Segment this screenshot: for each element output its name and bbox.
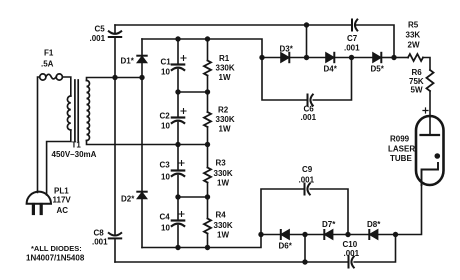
note: all diodes bbox=[26, 244, 85, 263]
wire: secondary bottom to ladder mid rail bbox=[87, 141, 208, 145]
label C10 value bbox=[343, 240, 360, 258]
label C8 value bbox=[92, 229, 108, 247]
label R099 LASER TUBE bbox=[388, 135, 415, 164]
svg-text:R6: R6 bbox=[412, 68, 423, 77]
wire: fuse to transformer primary top bbox=[62, 77, 70, 96]
svg-text:5W: 5W bbox=[411, 86, 423, 95]
svg-text:D1*: D1* bbox=[121, 57, 135, 66]
label D3 bbox=[280, 45, 294, 54]
svg-text:C8: C8 bbox=[94, 229, 105, 238]
wire: ladder top rail bbox=[142, 39, 262, 58]
svg-text:1W: 1W bbox=[219, 73, 231, 82]
svg-text:10: 10 bbox=[161, 68, 170, 77]
transformer T1 core bbox=[75, 80, 78, 141]
wire: lower diode row bbox=[261, 234, 396, 236]
label C6 value bbox=[301, 105, 317, 123]
svg-text:AC: AC bbox=[57, 206, 69, 215]
svg-text:330K: 330K bbox=[214, 169, 233, 178]
svg-text:.001: .001 bbox=[90, 34, 106, 43]
svg-text:.001: .001 bbox=[299, 176, 315, 185]
label D6 bbox=[279, 242, 293, 251]
capacitor C10 bbox=[349, 257, 354, 268]
wire: capacitor string C1-C4 bbox=[177, 39, 179, 248]
fuse F1 bbox=[40, 74, 63, 80]
svg-text:R4: R4 bbox=[216, 211, 227, 220]
label D1 bbox=[121, 57, 135, 66]
svg-text:2W: 2W bbox=[408, 41, 420, 50]
svg-text:R3: R3 bbox=[216, 159, 227, 168]
diode D7 bbox=[324, 230, 332, 239]
resistor R2 bbox=[204, 112, 211, 127]
svg-text:10: 10 bbox=[161, 122, 170, 131]
svg-text:.001: .001 bbox=[344, 44, 360, 53]
label D2 bbox=[121, 195, 135, 204]
svg-text:33K: 33K bbox=[406, 31, 421, 40]
label T1 bbox=[52, 141, 97, 160]
capacitor C4 bbox=[172, 212, 184, 227]
label R3 bbox=[214, 159, 233, 188]
svg-text:.001: .001 bbox=[301, 113, 317, 122]
wire: ladder bottom rail bbox=[142, 235, 261, 248]
resistor R5 bbox=[394, 54, 430, 70]
wire: C8 branch down to bottom rail bbox=[114, 78, 116, 263]
svg-text:10: 10 bbox=[161, 224, 170, 233]
label C4 bbox=[160, 213, 171, 233]
capacitor C8 bbox=[109, 233, 121, 238]
wire: bottom rail bbox=[115, 235, 396, 263]
label F1 value bbox=[41, 49, 54, 69]
label R6 bbox=[409, 68, 424, 95]
capacitor C3 bbox=[172, 161, 184, 177]
capacitor C6 bbox=[308, 95, 313, 106]
svg-text:D2*: D2* bbox=[121, 195, 135, 204]
laser tube V1 polarity plus bbox=[423, 108, 428, 113]
svg-text:D7*: D7* bbox=[322, 220, 336, 229]
resistor R6 bbox=[427, 70, 434, 135]
svg-text:D5*: D5* bbox=[371, 65, 385, 74]
label D8 bbox=[367, 220, 381, 229]
label C5 value bbox=[90, 25, 106, 44]
svg-text:330K: 330K bbox=[216, 115, 235, 124]
label D4 bbox=[324, 65, 338, 74]
svg-text:C1: C1 bbox=[161, 58, 172, 67]
svg-text:F1: F1 bbox=[44, 49, 54, 58]
resistor R1 bbox=[204, 61, 211, 76]
svg-text:*ALL DIODES:: *ALL DIODES: bbox=[31, 244, 82, 253]
wire: C6 branch bbox=[262, 58, 352, 101]
resistor R3 bbox=[204, 168, 211, 183]
wire: plug left lead up to fuse bbox=[38, 77, 40, 193]
diode D2 bbox=[137, 192, 146, 199]
svg-text:R5: R5 bbox=[408, 21, 419, 30]
diode D5 bbox=[373, 53, 381, 62]
plug PL1 bbox=[27, 192, 51, 214]
svg-text:.001: .001 bbox=[344, 249, 360, 258]
label R4 bbox=[214, 211, 233, 240]
label C2 bbox=[160, 112, 171, 131]
laser tube cathode bbox=[422, 163, 439, 185]
capacitor C9 bbox=[305, 184, 310, 195]
transformer T1 secondary winding bbox=[87, 81, 90, 141]
wire: ladder rail 2 bbox=[178, 91, 208, 93]
laser tube bore dot bbox=[435, 153, 441, 159]
svg-text:D4*: D4* bbox=[324, 65, 338, 74]
svg-text:C10: C10 bbox=[343, 240, 358, 249]
svg-text:1W: 1W bbox=[217, 179, 229, 188]
svg-text:.5A: .5A bbox=[41, 60, 54, 69]
wire: C5 riser from top rail down to transformer node bbox=[114, 25, 116, 78]
wire: tube cathode down to lower diode row bbox=[396, 185, 422, 235]
wire: top rail from C5 to C7 corner bbox=[115, 25, 394, 58]
label R1 bbox=[216, 54, 235, 82]
svg-text:D3*: D3* bbox=[280, 45, 294, 54]
capacitor C7 bbox=[352, 20, 357, 31]
label D5 bbox=[371, 65, 385, 74]
wire: resistor string R1-R4 bbox=[207, 39, 209, 248]
svg-text:10: 10 bbox=[161, 173, 170, 182]
svg-text:C7: C7 bbox=[347, 34, 358, 43]
diode D1 bbox=[137, 56, 146, 63]
diode D4 bbox=[326, 53, 334, 62]
laser tube anode bar bbox=[421, 134, 440, 136]
svg-text:C9: C9 bbox=[302, 165, 313, 174]
label C7 value bbox=[344, 34, 360, 53]
wire: riser from top rail to D3/D4 junction bbox=[306, 25, 308, 58]
svg-text:C2: C2 bbox=[160, 112, 171, 121]
diode D3 bbox=[281, 53, 289, 62]
svg-text:C3: C3 bbox=[160, 161, 171, 170]
wire: ladder rail 4 bbox=[178, 196, 208, 198]
wire: secondary top to diode string node bbox=[87, 78, 143, 81]
svg-text:117V: 117V bbox=[53, 196, 72, 205]
svg-text:1W: 1W bbox=[217, 231, 229, 240]
svg-text:PL1: PL1 bbox=[54, 187, 69, 196]
svg-text:R099: R099 bbox=[390, 135, 410, 144]
wire: diode string vertical D1/D2 bbox=[141, 39, 143, 248]
wire: C9 branch bbox=[261, 189, 348, 235]
svg-text:TUBE: TUBE bbox=[390, 154, 412, 163]
svg-text:330K: 330K bbox=[214, 221, 233, 230]
svg-text:1N4007/1N5408: 1N4007/1N5408 bbox=[26, 254, 85, 263]
capacitor C2 bbox=[172, 109, 186, 124]
laser tube R099 envelope bbox=[416, 116, 444, 185]
svg-text:R2: R2 bbox=[218, 106, 229, 115]
label C9 value bbox=[299, 165, 315, 185]
label R2 bbox=[216, 106, 235, 134]
wire: riser D6/D7 junction to bottom rail bbox=[304, 235, 306, 263]
svg-text:D8*: D8* bbox=[367, 220, 381, 229]
svg-text:D6*: D6* bbox=[279, 242, 293, 251]
label R5 bbox=[406, 21, 421, 50]
wire: upper multiplier diode row bbox=[262, 57, 394, 59]
diode D6 bbox=[281, 230, 289, 239]
svg-text:C5: C5 bbox=[95, 25, 106, 34]
svg-text:330K: 330K bbox=[216, 64, 235, 73]
svg-text:LASER: LASER bbox=[388, 145, 415, 154]
svg-text:.001: .001 bbox=[92, 238, 108, 247]
capacitor C5 bbox=[109, 31, 121, 37]
label PL1 bbox=[53, 187, 72, 216]
svg-text:450V–30mA: 450V–30mA bbox=[52, 150, 97, 159]
resistor R4 bbox=[204, 219, 211, 234]
svg-text:1W: 1W bbox=[219, 125, 231, 134]
wire: primary bottom to plug right lead bbox=[47, 130, 71, 195]
diode D8 bbox=[369, 230, 377, 239]
svg-text:C4: C4 bbox=[160, 213, 171, 222]
svg-text:R1: R1 bbox=[219, 54, 230, 63]
svg-text:T1: T1 bbox=[72, 141, 82, 150]
capacitor C1 bbox=[172, 56, 186, 71]
label C1 bbox=[161, 58, 172, 77]
transformer T1 primary winding bbox=[67, 96, 70, 130]
label C3 bbox=[160, 161, 171, 182]
label D7 bbox=[322, 220, 336, 229]
